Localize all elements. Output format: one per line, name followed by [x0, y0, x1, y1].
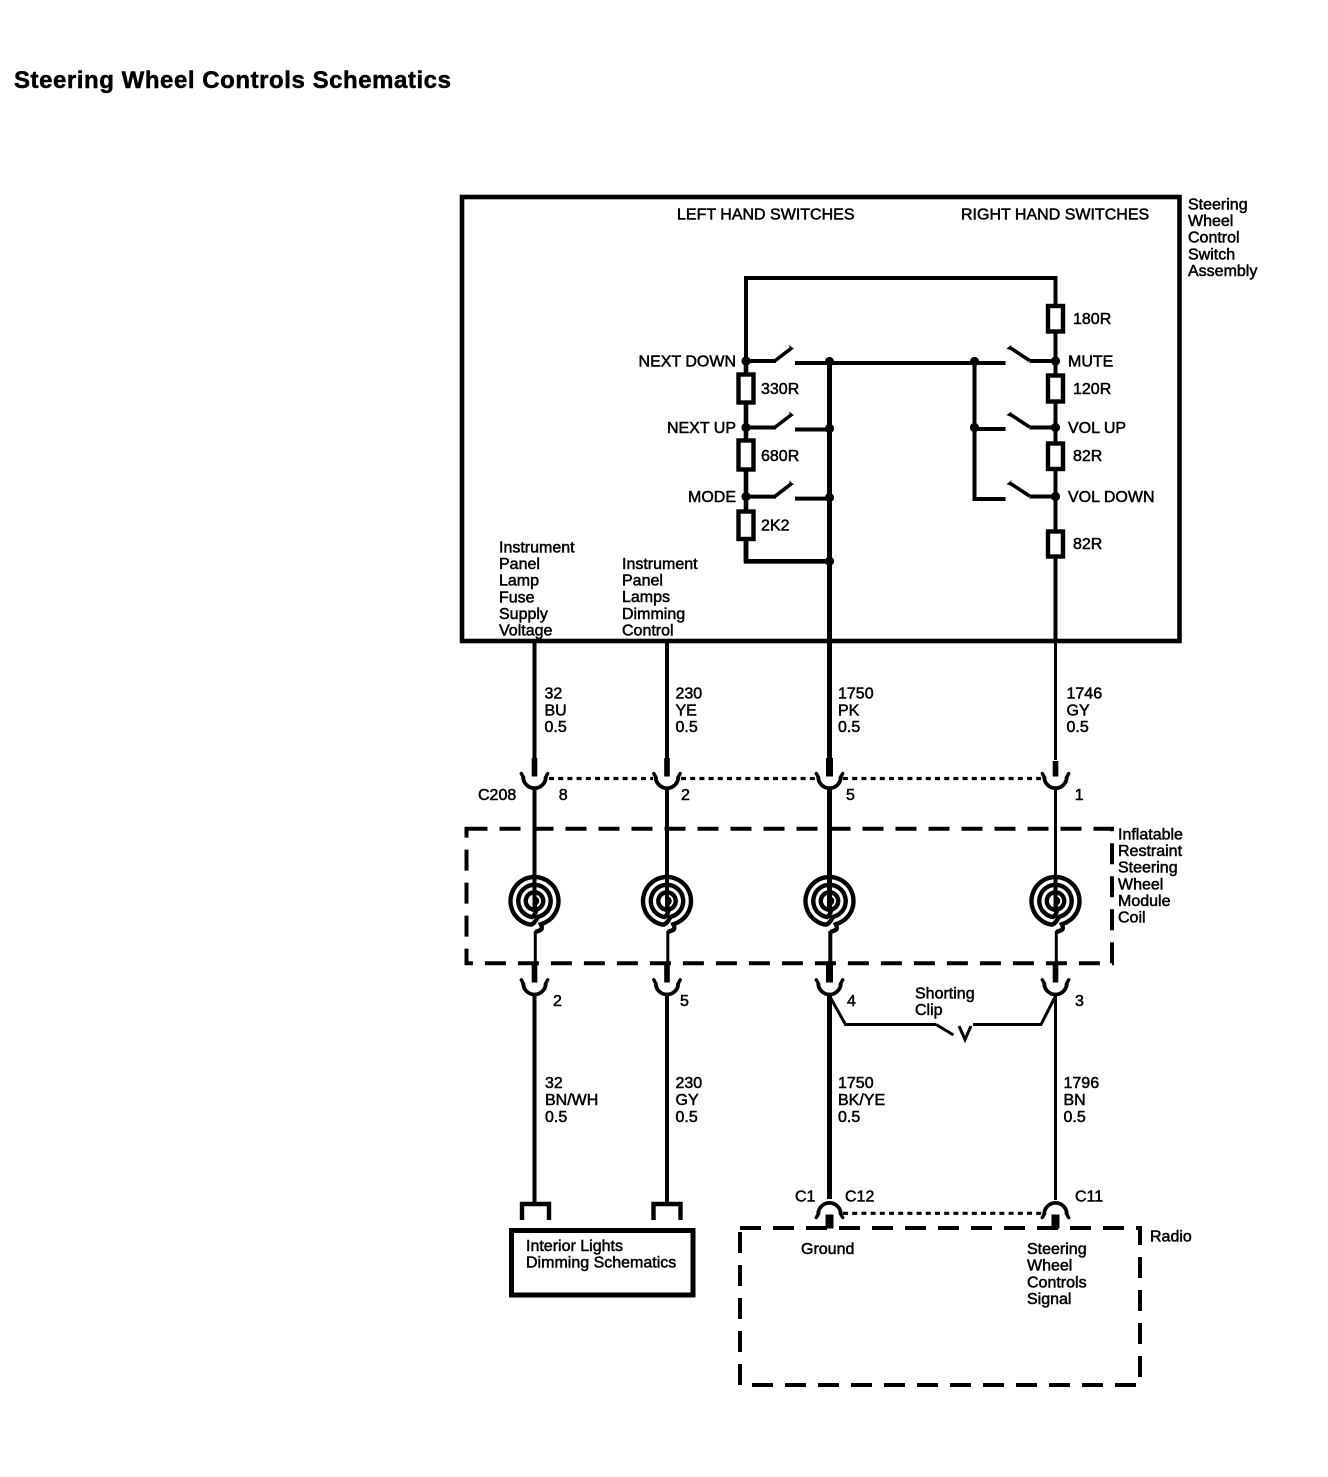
svg-text:680R: 680R: [761, 448, 799, 465]
wire 230 into coil: [665, 789, 669, 878]
svg-text:1796BN0.5: 1796BN0.5: [1064, 1075, 1100, 1126]
svg-text:C11: C11: [1075, 1189, 1103, 1206]
svg-text:82R: 82R: [1073, 536, 1102, 553]
resistor 2K2: [739, 512, 754, 540]
junction bus / chain bottom: [825, 557, 834, 566]
svg-text:2: 2: [681, 787, 690, 804]
terminal bracket wire 32: [522, 1204, 549, 1220]
interior lights dimming box: [512, 1231, 694, 1296]
connector C208 pin 8 terminal: [532, 758, 538, 777]
connector C208 pin 5 terminal: [826, 758, 833, 777]
switch NEXT DOWN: [746, 345, 1006, 363]
svg-text:Interior LightsDimming Schemat: Interior LightsDimming Schematics: [526, 1238, 676, 1272]
wire 32 into coil: [533, 789, 537, 878]
wire 32 BU drop: [533, 641, 537, 760]
svg-text:82R: 82R: [1073, 448, 1102, 465]
coil connector pin 5 terminal: [664, 964, 670, 983]
svg-text:230YE0.5: 230YE0.5: [676, 686, 703, 737]
svg-text:MODE: MODE: [688, 489, 736, 506]
connector C11 terminal: [1042, 1203, 1068, 1218]
junction MODE pole: [741, 492, 750, 501]
svg-text:Ground: Ground: [801, 1241, 854, 1258]
svg-text:InstrumentPanelLampFuseSupplyV: InstrumentPanelLampFuseSupplyVoltage: [499, 540, 575, 640]
coil connector pin 2 terminal: [532, 964, 538, 983]
inflatable restraint coil dashed box: [467, 829, 1113, 963]
wire top rail: [746, 278, 1056, 363]
wire 2K2 bottom to bus: [746, 539, 830, 561]
svg-text:MUTE: MUTE: [1068, 354, 1113, 371]
svg-text:ShortingClip: ShortingClip: [915, 986, 975, 1020]
svg-text:C208: C208: [478, 787, 516, 804]
svg-text:SteeringWheelControlSwitchAsse: SteeringWheelControlSwitchAssembly: [1188, 197, 1257, 280]
svg-text:LEFT HAND SWITCHES: LEFT HAND SWITCHES: [677, 207, 855, 224]
wire 1746 below coil: [1054, 963, 1057, 969]
svg-text:RIGHT HAND SWITCHES: RIGHT HAND SWITCHES: [961, 207, 1149, 224]
switch VOL UP: [1007, 411, 1056, 427]
svg-text:5: 5: [680, 993, 689, 1010]
junction bus / MODE row: [825, 493, 834, 502]
spiral coil 4 (1746): [1032, 875, 1080, 963]
connector C208 dotted line: [549, 777, 1041, 780]
wire 230 GY down: [665, 995, 669, 1204]
svg-text:C1: C1: [795, 1189, 816, 1206]
resistor 180R: [1048, 306, 1063, 332]
svg-text:3: 3: [1075, 993, 1084, 1010]
svg-text:InflatableRestraintSteeringWhe: InflatableRestraintSteeringWheelModuleCo…: [1118, 827, 1183, 927]
wire 32 BN/WH down: [533, 995, 537, 1204]
junction bus / NEXT DOWN row: [825, 357, 834, 366]
junction right bus / MUTE row: [970, 357, 979, 366]
svg-text:Steering Wheel Controls Schema: Steering Wheel Controls Schematics: [14, 67, 451, 94]
resistor 120R: [1048, 376, 1063, 402]
svg-text:NEXT UP: NEXT UP: [667, 420, 736, 437]
junction NEXT UP pole: [741, 423, 750, 432]
svg-text:2K2: 2K2: [761, 518, 790, 535]
svg-text:1750PK0.5: 1750PK0.5: [838, 686, 874, 737]
spiral coil 3 (1750): [806, 875, 854, 963]
svg-text:1: 1: [1075, 787, 1084, 804]
junction MUTE pole: [1051, 356, 1060, 365]
svg-text:InstrumentPanelLampsDimmingCon: InstrumentPanelLampsDimmingControl: [622, 556, 698, 639]
wire 230 below coil: [665, 963, 669, 969]
svg-text:5: 5: [846, 787, 855, 804]
resistor 330R: [739, 375, 754, 403]
wire right chain: [1054, 278, 1058, 641]
svg-text:120R: 120R: [1073, 381, 1111, 398]
switch MUTE: [1007, 345, 1056, 361]
resistor 82R upper: [1048, 444, 1063, 470]
svg-text:Radio: Radio: [1150, 1228, 1192, 1245]
switch NEXT UP: [746, 412, 830, 430]
wire 32 below coil: [533, 963, 537, 969]
svg-text:32BU0.5: 32BU0.5: [545, 686, 567, 737]
spiral coil 1 (32): [511, 875, 559, 963]
wire 1746 GY drop: [1054, 641, 1057, 760]
svg-text:180R: 180R: [1073, 311, 1111, 328]
connector C12 terminal: [816, 1203, 842, 1218]
wire 1750 into coil: [827, 789, 832, 878]
resistor 680R: [739, 441, 754, 470]
svg-text:VOL UP: VOL UP: [1068, 420, 1126, 437]
connector C208 pin 1 terminal: [1053, 761, 1059, 777]
terminal bracket wire 230: [654, 1204, 681, 1220]
wire 1796 BN down: [1054, 995, 1057, 1200]
junction bus / NEXT UP row: [825, 424, 834, 433]
svg-text:2: 2: [553, 993, 562, 1010]
svg-text:1746GY0.5: 1746GY0.5: [1067, 686, 1103, 737]
coil connector pin 4 terminal: [826, 964, 833, 983]
wire left chain: [744, 361, 749, 561]
svg-text:1750BK/YE0.5: 1750BK/YE0.5: [838, 1075, 885, 1126]
switch VOL DOWN: [1007, 480, 1056, 496]
wire VOL UP throw: [975, 427, 1006, 431]
svg-text:4: 4: [847, 993, 856, 1010]
coil connector pin 3 terminal: [1053, 964, 1059, 983]
wire central bus 1750: [827, 362, 832, 776]
svg-text:32BN/WH0.5: 32BN/WH0.5: [545, 1075, 598, 1126]
junction VOL DOWN pole: [1051, 492, 1060, 501]
shorting clip: [830, 996, 1056, 1040]
svg-text:8: 8: [559, 787, 568, 804]
radio dashed box: [740, 1228, 1140, 1385]
svg-text:330R: 330R: [761, 381, 799, 398]
svg-text:SteeringWheelControlsSignal: SteeringWheelControlsSignal: [1027, 1241, 1087, 1308]
svg-text:C12: C12: [845, 1189, 874, 1206]
wire 1746 into coil: [1054, 789, 1057, 878]
wire right bus: [975, 362, 1006, 500]
svg-text:230GY0.5: 230GY0.5: [676, 1075, 703, 1126]
junction NEXT DOWN pole: [741, 356, 750, 365]
switch MODE: [746, 481, 830, 499]
wire 1750 below coil: [827, 963, 832, 969]
wire 230 YE drop: [665, 641, 669, 760]
bottom dotted line: [843, 1212, 1042, 1215]
junction right bus / VOL UP row: [970, 423, 979, 432]
resistor 82R lower: [1048, 532, 1063, 557]
svg-text:VOL DOWN: VOL DOWN: [1068, 489, 1155, 506]
steering wheel control switch assembly box: [462, 197, 1180, 641]
spiral coil 2 (230): [643, 875, 691, 963]
junction VOL UP pole: [1051, 423, 1060, 432]
connector C208 pin 2 terminal: [664, 758, 670, 777]
wire 1750 BK/YE down: [827, 995, 832, 1199]
svg-text:NEXT DOWN: NEXT DOWN: [639, 354, 736, 371]
